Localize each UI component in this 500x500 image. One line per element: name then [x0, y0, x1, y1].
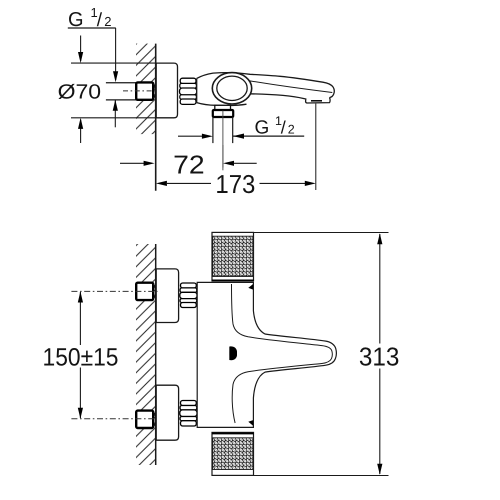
lower connection centre line (dash-dot) — [71, 418, 157, 420]
outlet thread arrow left (pointing right) — [178, 134, 213, 139]
Ø70 dimension arrow top (down) — [78, 36, 83, 64]
temperature knob (bottom view, knurled) — [212, 232, 254, 281]
corner mark top right — [248, 284, 253, 290]
wall nut (square, top view) — [136, 82, 153, 99]
label G 1/2 (top left) — [68, 5, 116, 31]
outlet pipe centre line (top view) — [222, 111, 224, 171]
lower union hex nut (bottom view) — [180, 401, 197, 427]
escutcheon / wall rosette (top view) — [156, 63, 177, 118]
leader / upper thread dimension arrow (down) — [113, 28, 118, 82]
spout inner profile line (bottom view) — [232, 284, 333, 423]
wall hatching (bottom view) — [136, 244, 156, 465]
label G 1/2 (at shower outlet) — [233, 114, 304, 139]
72/173 right extension line (outlet centre) — [222, 145, 224, 168]
shower outlet neck under body (top view) — [215, 105, 231, 110]
mixer body with spout (bottom view, plan) — [197, 282, 336, 427]
outlet thread arrow right (pointing left) — [233, 134, 244, 139]
control knob outer ring (top view) — [212, 73, 251, 104]
spout crease line (top view) — [248, 81, 333, 93]
shower outlet flange (top view) — [213, 110, 233, 117]
union hex nut (top view) — [180, 78, 197, 104]
svg-text:/: / — [281, 118, 286, 138]
aerator slot (top view) — [311, 100, 322, 102]
Ø70 upper extension line / escutcheon top — [71, 62, 157, 64]
svg-text:Ø70: Ø70 — [58, 81, 102, 104]
lower escutcheon (bottom view) — [156, 385, 178, 440]
chamfer arcs right of wall nut — [153, 84, 155, 98]
wall face line with lower extension (top view) — [155, 44, 157, 191]
upper union hex nut (bottom view) — [180, 283, 197, 308]
Ø70 dimension arrow bottom (up) — [78, 118, 83, 143]
svg-text:150±15: 150±15 — [43, 343, 119, 371]
upper wall nut (bottom view) — [136, 283, 153, 300]
pipe centre line (top view, dash-dot) — [123, 90, 158, 92]
wall hatching (top view) — [136, 44, 156, 135]
lower wall nut (bottom view) — [136, 411, 153, 428]
spout outlet mark (black D) — [229, 346, 237, 360]
volume knob (bottom view, knurled) — [212, 432, 254, 475]
dimension 173 — [156, 169, 316, 199]
corner mark bottom right — [248, 420, 253, 426]
control knob inner ring (top view) — [217, 76, 247, 100]
svg-text:313: 313 — [359, 341, 400, 371]
dimension 313 — [253, 233, 400, 476]
faucet body with spout (top view) — [197, 73, 335, 106]
svg-text:72: 72 — [173, 149, 205, 179]
body bottom edge (top view) — [197, 103, 247, 106]
wall face line (bottom view) — [155, 244, 157, 465]
spout / body top outline (top view) — [197, 73, 335, 103]
upper thread dimension arrow (up) — [113, 100, 118, 128]
svg-text:2: 2 — [288, 123, 295, 137]
173 right extension line (spout outlet centre) — [315, 104, 317, 190]
dimension 72 — [120, 149, 257, 179]
supply pipe through wall (top view) — [106, 83, 137, 100]
svg-text:2: 2 — [104, 14, 111, 29]
chamfer arcs right of lower wall nut — [153, 412, 155, 426]
shower outlet pipe (top view) — [213, 117, 233, 143]
upper escutcheon (bottom view) — [156, 269, 178, 323]
body left edge (top view) — [196, 78, 198, 102]
chamfer arcs right of upper wall nut — [153, 285, 155, 299]
svg-text:173: 173 — [215, 169, 255, 199]
Ø70 lower extension line / escutcheon bottom — [71, 117, 157, 119]
dimension 150±15 — [43, 291, 119, 418]
upper connection centre line (dash-dot) — [71, 290, 157, 292]
